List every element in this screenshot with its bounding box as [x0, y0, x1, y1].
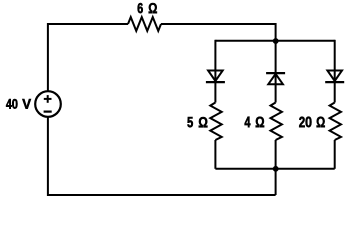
wire: left vertical below source	[47, 117, 49, 196]
label 5 ohm	[187, 117, 207, 127]
wire: upper rail joining three parallel branches	[215, 40, 334, 42]
source V1 40V (circle)	[35, 91, 61, 117]
wire: top-left horizontal segment from source branch to resistor	[48, 23, 128, 25]
node: junction dot on upper rail	[273, 38, 279, 44]
label 40 V	[6, 99, 31, 109]
diode D3 (cathode down)	[327, 71, 342, 82]
resistor R 6ohm (horizontal zigzag)	[128, 17, 161, 31]
source plus sign	[44, 98, 52, 100]
wire: left vertical above source	[47, 23, 49, 91]
wire: branch 2 vertical (through diode)	[275, 41, 277, 103]
wire: drop from lower rail to bottom return wire	[275, 169, 277, 195]
wire: lower rail joining three parallel branches	[215, 168, 334, 170]
source minus sign	[44, 110, 52, 112]
label 6 ohm	[138, 3, 157, 13]
node: junction dot on lower rail	[273, 166, 279, 172]
wire: top horizontal segment from resistor to feed corner	[161, 23, 276, 25]
wire: branch 1 lower stub	[214, 140, 216, 169]
resistor 4 ohm (vertical zigzag, branch 2)	[271, 103, 282, 141]
wire: branch 2 lower stub	[275, 140, 277, 169]
wire: vertical feed from top wire down to parallel rail	[275, 23, 277, 41]
diode D2 (cathode up)	[266, 72, 285, 74]
diode D1 (cathode down)	[208, 71, 223, 82]
wire: branch 3 vertical (through diode)	[334, 40, 336, 103]
wire: branch 1 vertical (through diode)	[214, 40, 216, 103]
label 4 ohm	[245, 117, 265, 128]
wire: bottom return wire	[48, 194, 276, 196]
label 20 ohm	[299, 117, 325, 128]
wire: branch 3 lower stub	[334, 140, 336, 169]
resistor 20 ohm (vertical zigzag, branch 3)	[330, 103, 341, 141]
resistor 5 ohm (vertical zigzag, branch 1)	[210, 103, 221, 141]
